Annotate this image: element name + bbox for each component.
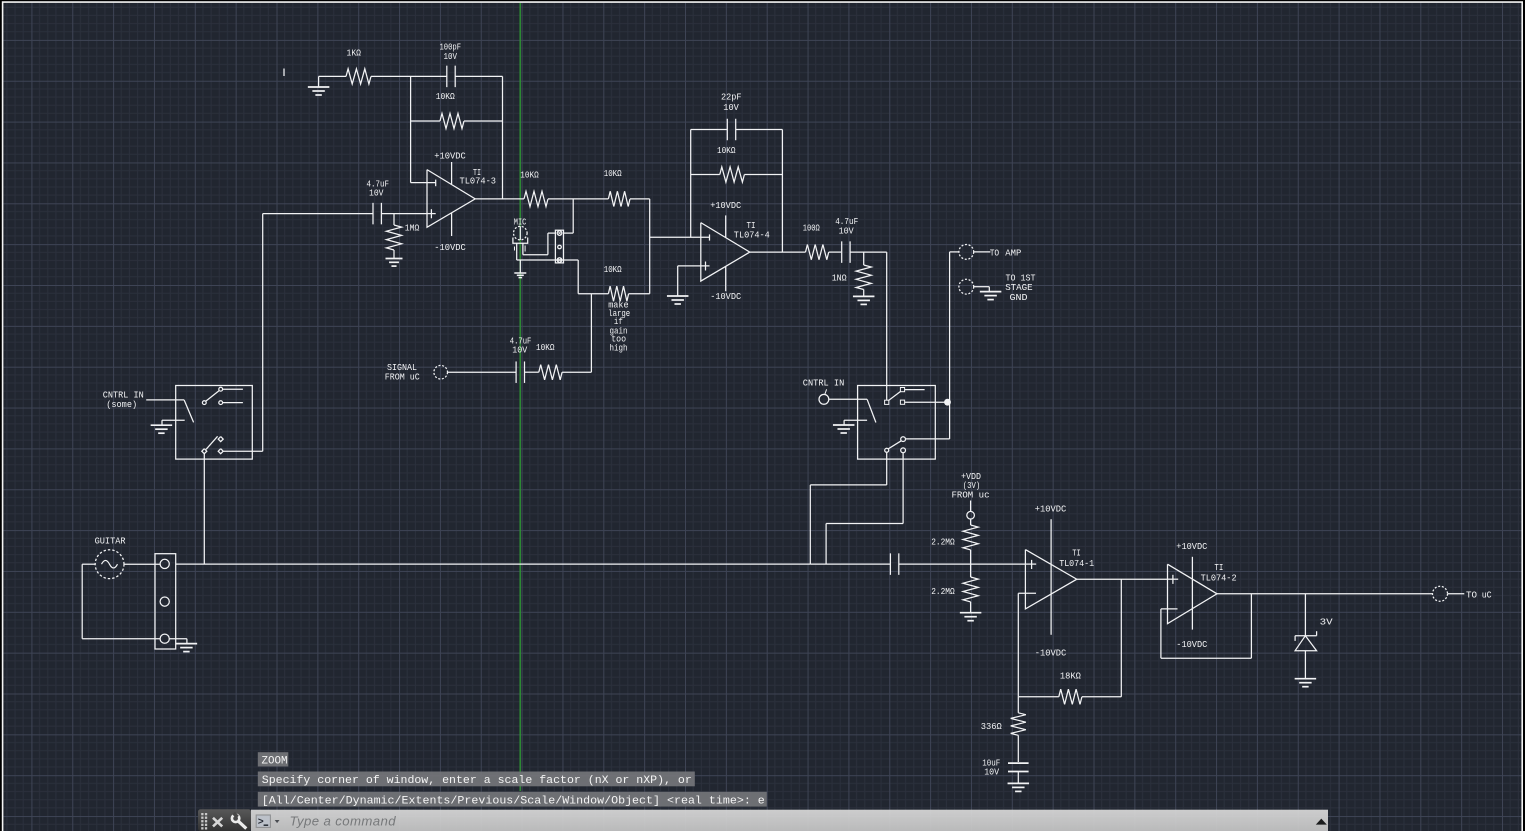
svg-text:(some): (some): [106, 399, 137, 410]
switch S1b contact A: [218, 437, 223, 442]
label 336R: [981, 721, 1002, 732]
capacitor 4.7uF U1 input: [373, 203, 381, 225]
wire gnd rail down: [577, 260, 579, 294]
svg-text:10V: 10V: [839, 226, 854, 237]
connector J2 body: [555, 230, 563, 263]
label CNTRL IN right: [803, 377, 845, 388]
label +VDD (3V) FROM uc: [952, 471, 990, 500]
wire out2 to U2 column: [630, 198, 650, 200]
power +10VDC U4: [710, 200, 741, 238]
label U2 TI: [1072, 547, 1081, 558]
resistor 10K sum: [608, 286, 628, 301]
connector J2 pin1: [557, 231, 562, 236]
resistor 18K: [1059, 689, 1082, 704]
wire cntrl-in left: [146, 399, 184, 401]
power -10VDC U4: [710, 267, 741, 303]
wire node to S2b: [906, 402, 950, 439]
ground G10 (jack): [176, 644, 198, 652]
note make large: [608, 299, 630, 353]
switch S1b pivot: [202, 449, 207, 454]
label 10K out2: [604, 168, 622, 179]
wire S1a contact A lead: [223, 388, 243, 390]
command bar: [198, 809, 1328, 831]
wire to TO AMP circle: [950, 251, 959, 253]
switch S2a lever: [888, 391, 900, 400]
wire main line right: [899, 563, 1026, 565]
label CNTRL IN left: [103, 390, 144, 401]
switch S2b contact B: [901, 448, 906, 453]
svg-text:-10VDC: -10VDC: [710, 291, 741, 302]
junction node: [944, 399, 951, 406]
label 1M shunt: [832, 273, 847, 284]
resistor 10K fb2: [720, 167, 745, 182]
wire 18K right: [1082, 696, 1121, 698]
wire main line: [176, 563, 811, 565]
svg-text:10V: 10V: [444, 51, 458, 62]
svg-text:MIC: MIC: [514, 217, 527, 228]
ground G6 (to 1st stage): [980, 292, 1002, 300]
wire U3 feedback: [1161, 594, 1252, 658]
svg-text:18KΩ: 18KΩ: [1060, 671, 1081, 682]
switch S2b lever: [888, 441, 901, 449]
wire sw2 feed vertical: [886, 252, 888, 400]
ground G5 (1M shunt): [853, 296, 875, 304]
label TO 1ST STAGE GND: [1005, 272, 1036, 302]
label 100R: [803, 223, 820, 234]
text mark I: [283, 69, 285, 77]
ground G8 (S2): [833, 425, 855, 433]
svg-text:-10VDC: -10VDC: [434, 242, 466, 253]
svg-text:TL074-1: TL074-1: [1059, 558, 1094, 569]
label 10K signal: [536, 342, 555, 353]
switch S2b pivot: [885, 448, 889, 452]
wire S1b contact B lead: [223, 450, 263, 452]
command history line 3: [258, 792, 767, 808]
wire R to riser: [562, 371, 591, 373]
wire guitar right: [124, 563, 160, 565]
label U4 TI: [747, 220, 756, 231]
wire zener drop: [1304, 594, 1306, 636]
wire guitar left loop: [82, 564, 160, 639]
resistor 336R: [1011, 697, 1026, 762]
wire S1 riser to U1 input: [263, 214, 373, 452]
wire U1 inv input: [411, 180, 436, 187]
svg-text:2.2MΩ: 2.2MΩ: [931, 586, 955, 597]
svg-text:uC: uC: [1482, 590, 1492, 601]
label -10VDC U3: [1176, 639, 1207, 650]
resistor 1M: [386, 214, 401, 259]
command prompt box: [256, 815, 270, 829]
wire U2 output: [1077, 578, 1168, 580]
switch S2a contact B: [900, 400, 904, 404]
pin + mark U2: [1025, 560, 1036, 569]
svg-text:3V: 3V: [1320, 617, 1333, 628]
wire fb2 top right: [736, 129, 783, 131]
label 4.7uF signal: [510, 336, 532, 356]
terminal TO AMP: [959, 245, 974, 260]
power -10VDC U1: [434, 213, 466, 253]
svg-text:TO: TO: [990, 248, 1000, 259]
label +10VDC U3: [1176, 541, 1207, 552]
wire U3 output: [1217, 593, 1433, 595]
switch S1a contact B: [219, 401, 223, 405]
capacitor 100pF: [447, 66, 455, 88]
wire out1 to out2: [548, 198, 608, 200]
wire fb2 right vertical: [781, 130, 783, 253]
wire fb-right vertical: [502, 76, 504, 198]
svg-text:10KΩ: 10KΩ: [520, 170, 539, 181]
terminal TO uC: [1433, 586, 1448, 601]
label U1 TL074-3: [460, 176, 497, 187]
wire gnd to R 1K: [319, 75, 346, 77]
svg-text:GND: GND: [1010, 292, 1028, 303]
label (some): [106, 399, 137, 410]
label 1M: [405, 223, 420, 234]
label U1 TI: [473, 167, 481, 178]
resistor 1K: [346, 69, 371, 84]
pin + mark U1: [427, 209, 436, 218]
wire cap to sw column: [850, 251, 887, 253]
capacitor 4.7uF out: [842, 241, 850, 263]
wire U3 inv input: [1161, 608, 1178, 610]
terminal +VDD circle: [967, 501, 975, 520]
wire 10uF to gnd: [1017, 772, 1019, 784]
ground G1 (input bias): [308, 76, 330, 95]
svg-text:GUITAR: GUITAR: [95, 536, 126, 547]
command placeholder text: [290, 814, 397, 829]
wire C100p to fb-right: [455, 75, 502, 77]
switch S2a pivot: [885, 400, 889, 404]
svg-text:+10VDC: +10VDC: [710, 200, 741, 211]
label 10uF: [982, 758, 1000, 778]
capacitor 4.7uF signal: [516, 361, 524, 383]
label 2.2M upper: [931, 536, 955, 547]
switch S2a contact A: [900, 388, 904, 392]
switch S1a contact A: [219, 387, 223, 391]
label U3 TI: [1214, 562, 1223, 573]
svg-text:1KΩ: 1KΩ: [347, 47, 362, 58]
svg-text:10V: 10V: [723, 102, 739, 113]
source GUITAR: [95, 550, 124, 579]
ground G12 (zener): [1295, 679, 1317, 687]
wire TO GND lead: [974, 287, 990, 292]
connector J2 pin3: [557, 258, 562, 263]
svg-text:TI: TI: [1214, 562, 1223, 573]
wire mic gnd rail: [517, 259, 579, 261]
green construction line: [519, 3, 521, 791]
svg-text:+10VDC: +10VDC: [1035, 504, 1067, 515]
resistor 10K out2: [608, 191, 630, 206]
wire U4 inv input: [650, 234, 710, 240]
wire fb2 res right: [744, 174, 782, 176]
svg-text:Type a command: Type a command: [290, 814, 397, 829]
wire S2a contact A lead: [905, 389, 925, 391]
svg-text:-10VDC: -10VDC: [1035, 648, 1067, 659]
svg-text:TO: TO: [1466, 590, 1477, 601]
svg-text:10KΩ: 10KΩ: [436, 91, 455, 102]
label 100pF: [440, 41, 462, 62]
label 10K sum: [604, 264, 622, 275]
svg-text:10V: 10V: [984, 766, 999, 777]
resistor 10K feedback: [440, 113, 464, 128]
wire fb2 left vertical: [690, 130, 692, 238]
wire R1K to C100p: [371, 75, 447, 77]
wire mic to connector: [523, 233, 556, 255]
wire U4 noninv input: [678, 262, 710, 271]
wire fb row right: [464, 120, 503, 122]
switch S1b lever: [206, 436, 218, 449]
command bar up arrow: [1316, 819, 1327, 825]
terminal CNTRL IN circle: [819, 389, 829, 404]
wire noninv to gnd: [677, 266, 679, 296]
resistor 10K out1: [524, 191, 548, 206]
wire S1 gnd arm: [162, 420, 185, 425]
wire fb-left vertical: [410, 76, 412, 182]
wire signal riser: [590, 294, 592, 373]
wire TO AMP column: [949, 252, 951, 402]
svg-text:FROM uC: FROM uC: [385, 372, 420, 383]
wire U2 fb drop: [1120, 579, 1122, 697]
wire to R sum: [578, 293, 608, 295]
svg-text:[All/Center/Dynamic/Extents/Pr: [All/Center/Dynamic/Extents/Previous/Sca…: [262, 796, 765, 808]
svg-text:ZOOM: ZOOM: [262, 755, 288, 767]
label U2 TL074-1: [1059, 558, 1094, 569]
wire S1b pivot drop: [203, 454, 205, 564]
label 10K out1: [520, 170, 539, 181]
label 4.7uF out: [835, 216, 858, 237]
op-amp U4 TL074-4: [701, 223, 750, 282]
power +10VDC U1: [434, 150, 466, 184]
wire S2b pivot drop: [810, 452, 886, 564]
terminal SIGNAL circle: [434, 365, 448, 379]
label 22pF: [721, 92, 742, 113]
wire cap to U1: [381, 213, 427, 215]
resistor 10K signal: [539, 365, 562, 380]
wire J2 pin1 to output node: [564, 199, 574, 233]
resistor 100R: [806, 245, 829, 260]
switch S1a pivot: [202, 401, 206, 405]
svg-text:10KΩ: 10KΩ: [717, 145, 736, 156]
label +10VDC U2: [1035, 504, 1067, 515]
label 3V: [1320, 617, 1333, 628]
ground G9 (divider): [960, 613, 982, 621]
ground G7 (S1): [151, 425, 173, 433]
svg-text:TI: TI: [1072, 547, 1081, 558]
label 10K fb2: [717, 145, 736, 156]
svg-text:high: high: [610, 343, 628, 354]
wire 18K left: [1018, 696, 1059, 698]
power line U3: [1191, 557, 1193, 630]
wire main line mid: [810, 563, 890, 565]
svg-text:CNTRL IN: CNTRL IN: [803, 377, 845, 388]
switch S1 body: [176, 386, 253, 460]
svg-text:2.2MΩ: 2.2MΩ: [931, 536, 955, 547]
wire U2 inv drop: [1017, 593, 1019, 697]
switch S1a lever: [206, 391, 220, 402]
svg-text:TL074-2: TL074-2: [1201, 572, 1237, 583]
microphone MIC: [513, 226, 528, 243]
wire zener to gnd: [1304, 651, 1306, 679]
svg-text:10KΩ: 10KΩ: [604, 168, 622, 179]
connector J1 pin1: [160, 559, 169, 568]
label MIC: [514, 217, 527, 228]
label 10K feedback: [436, 91, 455, 102]
label TO uC: [1466, 590, 1492, 601]
command history line 2: [258, 772, 695, 788]
op-amp U3 TL074-2: [1168, 564, 1218, 624]
node junction fb-left: [410, 75, 412, 77]
wire fb2 res left: [691, 174, 720, 176]
capacitor 22pF: [727, 119, 735, 141]
svg-text:AMP: AMP: [1005, 248, 1021, 259]
svg-text:Specify corner of window, ente: Specify corner of window, enter a scale …: [262, 775, 692, 787]
connector J1 pin3: [160, 634, 169, 643]
label 1K: [347, 47, 362, 58]
connector J1 pin2: [160, 597, 169, 606]
wire U2 inv input: [1018, 592, 1036, 594]
connector J1 body: [155, 554, 176, 649]
wire cntrl-in right: [829, 398, 867, 400]
mic leads: [515, 243, 526, 260]
svg-text:10V: 10V: [512, 344, 527, 355]
label -10VDC U2: [1035, 648, 1067, 659]
switch S1b contact B: [218, 449, 223, 454]
svg-text:100Ω: 100Ω: [803, 223, 820, 234]
svg-text:-10VDC: -10VDC: [1176, 639, 1207, 650]
svg-text:>: >: [258, 818, 264, 829]
wire S1a contact B lead: [223, 402, 243, 404]
ground G2 (1M): [386, 259, 403, 267]
svg-text:+10VDC: +10VDC: [434, 150, 466, 161]
wire S2a contact B lead: [905, 401, 948, 403]
ground G3 (mic): [514, 260, 526, 278]
svg-text:1MΩ: 1MΩ: [405, 223, 420, 234]
command history ZOOM: [258, 752, 289, 767]
diode zener 3V: [1295, 631, 1317, 651]
wire TO uC lead: [1448, 593, 1465, 595]
wire J1 gnd lead: [169, 639, 187, 644]
ground G11 (10uF): [1008, 783, 1030, 791]
pin + mark U3: [1168, 575, 1179, 584]
resistor 2.2M lower: [963, 564, 978, 613]
command dropdown arrow: [275, 820, 280, 823]
resistor 2.2M upper: [963, 519, 978, 564]
label SIGNAL FROM uC: [385, 362, 420, 383]
label 4.7uF U1: [367, 178, 390, 198]
svg-text:FROM uc: FROM uc: [952, 489, 990, 500]
svg-text:10KΩ: 10KΩ: [604, 264, 622, 275]
svg-text:10V: 10V: [369, 188, 384, 199]
wire signal to cap: [448, 371, 517, 373]
connector J2 pin2: [558, 245, 562, 249]
op-amp U2 TL074-1: [1025, 550, 1076, 609]
wire cap to R: [525, 371, 539, 373]
wire TO AMP lead: [974, 251, 991, 253]
label 2.2M lower: [931, 586, 955, 597]
wire fb2 top left: [691, 129, 728, 131]
ground G4 (U4 +in): [667, 296, 689, 304]
wire fb row left: [411, 120, 440, 122]
svg-text:TL074-4: TL074-4: [734, 230, 770, 241]
svg-text:10KΩ: 10KΩ: [536, 342, 555, 353]
capacitor 4.7uF main: [890, 553, 898, 575]
switch S2 body: [858, 386, 936, 460]
switch S2b contact A: [901, 437, 906, 442]
label GUITAR: [95, 536, 126, 547]
wire U1 output: [475, 198, 524, 200]
op-amp U1 TL074-3: [427, 170, 475, 228]
label U3 TL074-2: [1201, 572, 1237, 583]
wire U4 output: [750, 251, 806, 253]
resistor 1M shunt: [856, 252, 871, 296]
wire sum to column: [629, 293, 650, 295]
label U4 TL074-4: [734, 230, 770, 241]
wire U2 column vertical: [649, 199, 651, 294]
switch S2 input lever: [867, 399, 876, 422]
capacitor 10uF: [1008, 763, 1029, 771]
label 18K: [1060, 671, 1081, 682]
svg-text:+10VDC: +10VDC: [1176, 541, 1207, 552]
wire U1 noninv input: [381, 213, 427, 215]
switch S1 input lever: [184, 400, 194, 423]
svg-text:1NΩ: 1NΩ: [832, 273, 847, 284]
svg-text:TL074-3: TL074-3: [460, 176, 497, 187]
wire S2b contact drop: [826, 453, 903, 564]
wire S2 gnd arm: [844, 420, 867, 425]
label TO AMP: [990, 248, 1022, 259]
terminal TO 1ST STAGE GND: [959, 279, 974, 294]
power line U2: [1050, 519, 1052, 635]
wire R100 to cap: [829, 251, 842, 253]
svg-text:336Ω: 336Ω: [981, 721, 1002, 732]
